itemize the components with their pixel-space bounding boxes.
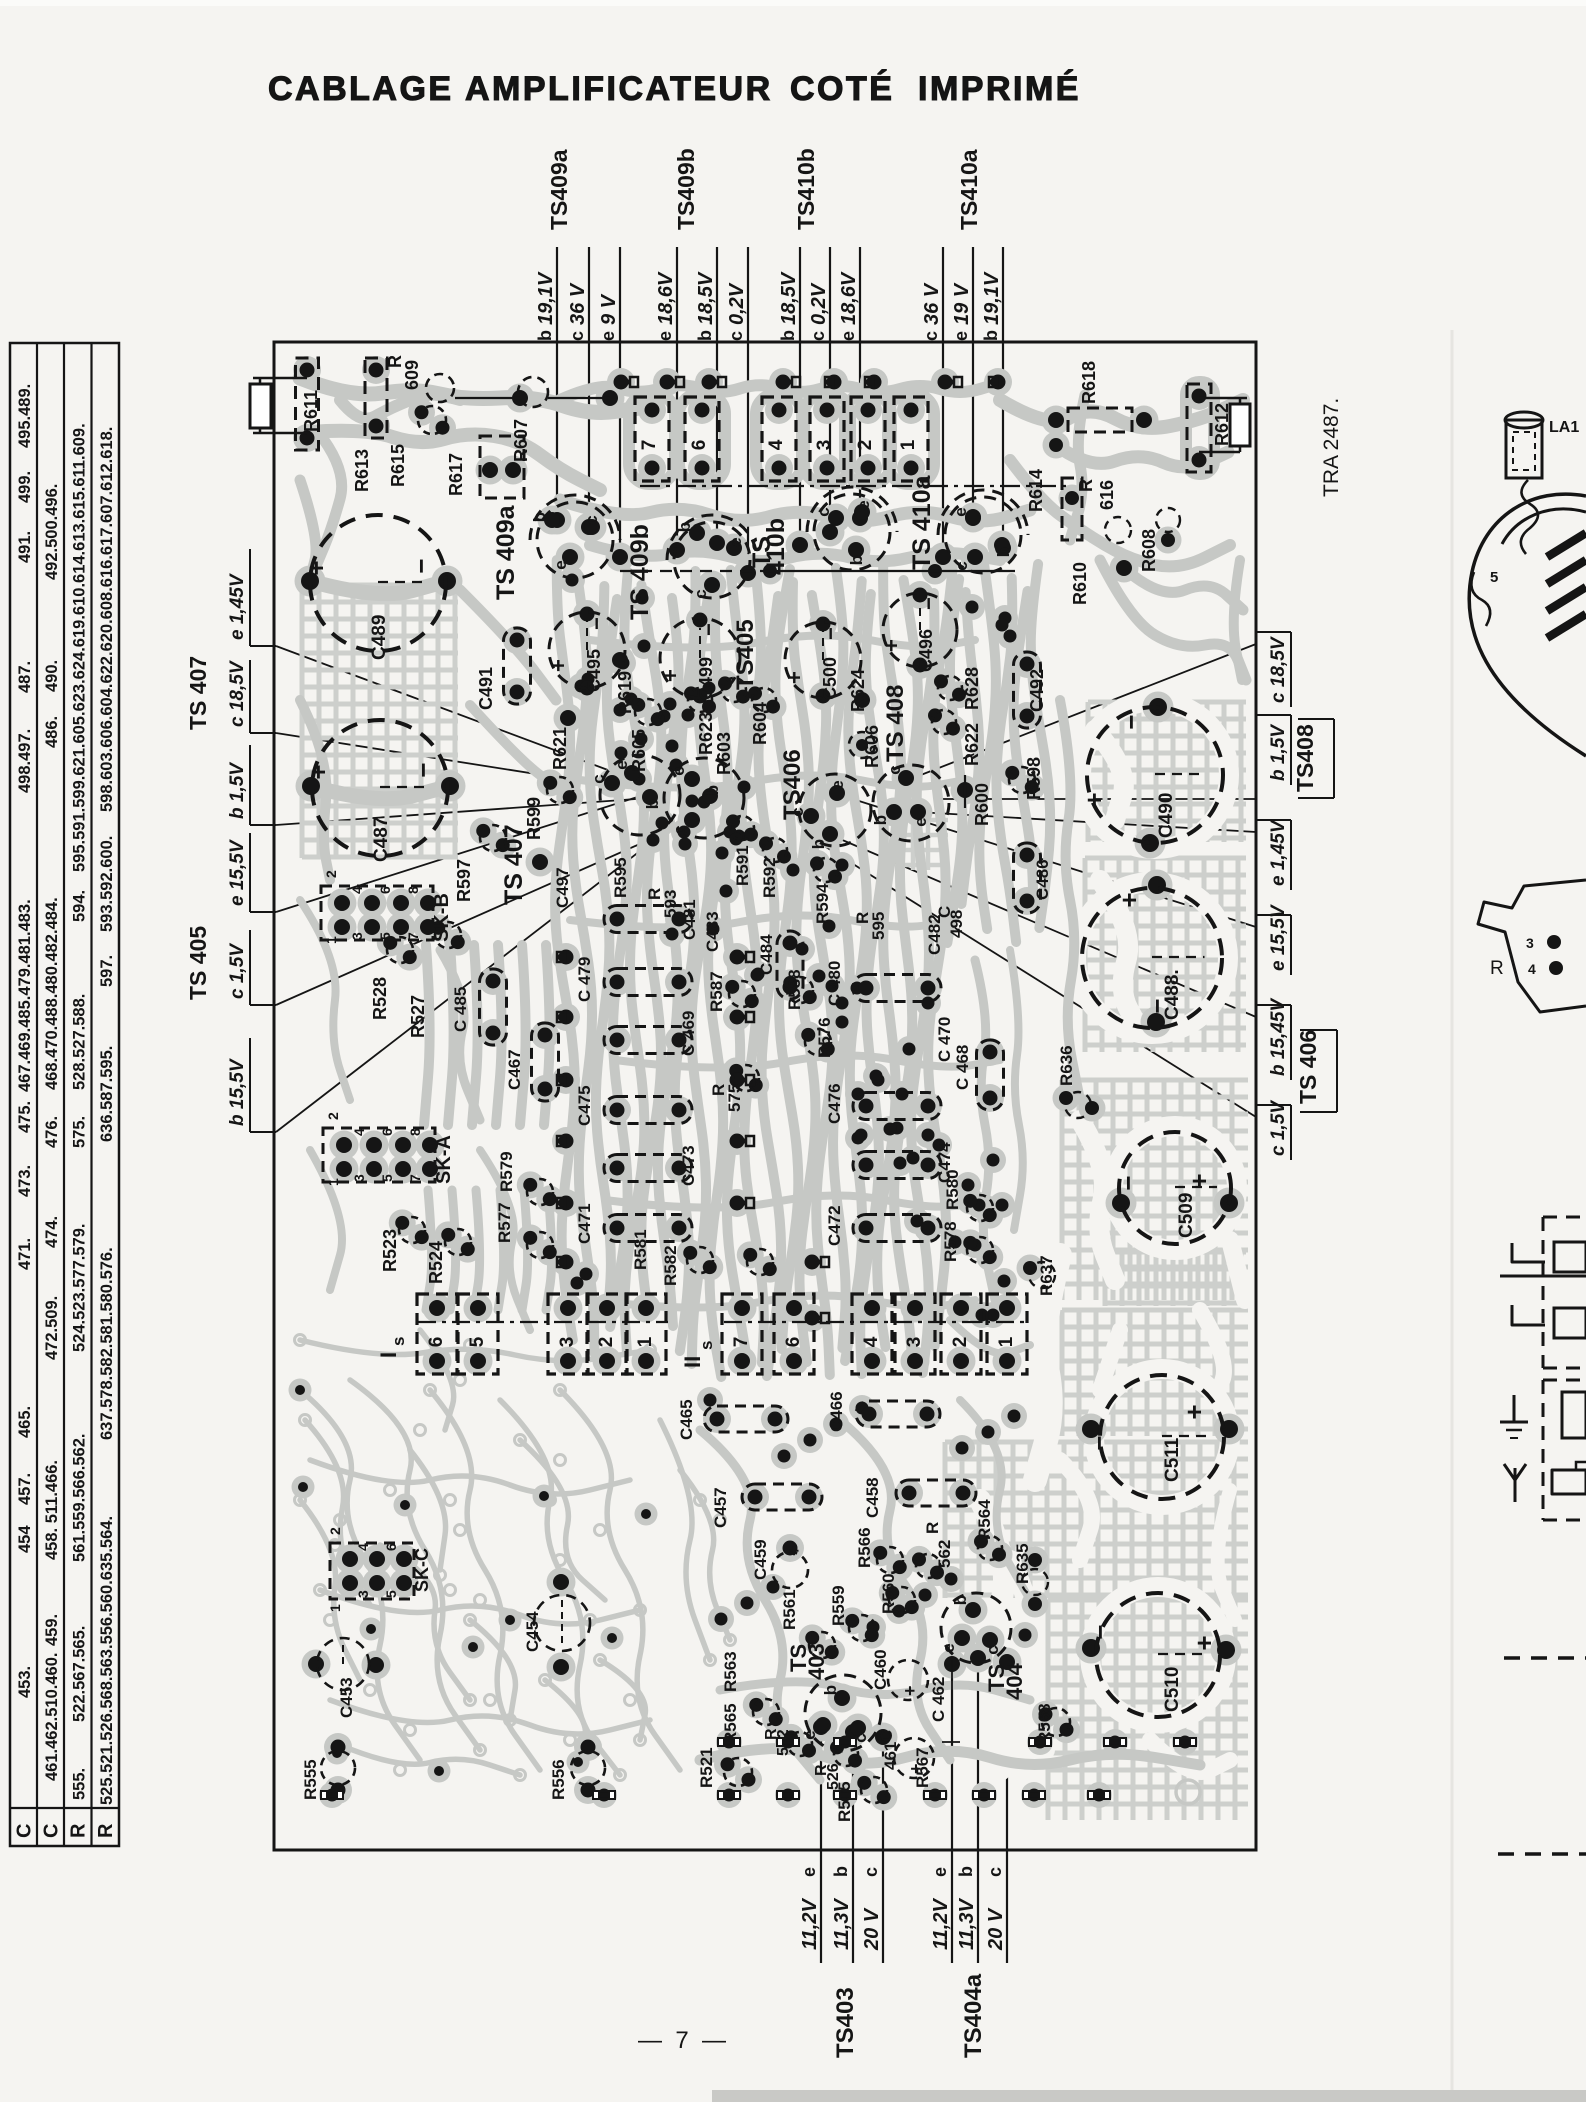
svg-text:18,6V: 18,6V [655,271,677,325]
resistor R521 [724,1758,752,1786]
resistor R623 [688,688,712,712]
leader line c 18,5V right [908,644,1256,780]
svg-text:C509: C509 [1176,1193,1197,1238]
resistor R603 [722,678,746,702]
spade pads top row [630,377,638,387]
resistor R556 [571,1751,605,1785]
transistor TS408 circle [873,765,949,841]
connector Is 6 [417,1294,457,1374]
resistor R576 [805,1029,831,1055]
svg-text:476.: 476. [43,1116,61,1148]
svg-text:472.509.: 472.509. [43,1296,61,1360]
svg-text:C486: C486 [1033,859,1052,900]
copper trace bottom center [700,1430,820,1780]
bottom edge tab pads [321,1793,343,1798]
capacitor C487 [312,720,448,856]
svg-text:593: 593 [661,890,680,918]
connector SK-A [323,1128,435,1182]
svg-text:3: 3 [1526,935,1534,951]
svg-text:SK-A: SK-A [433,1135,455,1184]
svg-text:3: 3 [349,932,365,940]
svg-text:R622: R622 [962,723,982,766]
svg-text:−: − [1113,1175,1143,1190]
resistor R555 [321,1751,355,1785]
leader line c 1,5V [276,820,694,1005]
svg-text:C459: C459 [751,1539,770,1580]
svg-text:R608: R608 [1139,529,1159,572]
svg-text:R524: R524 [426,1241,446,1284]
svg-text:R635: R635 [1013,1543,1032,1584]
copper grid region C490 [1088,702,1246,842]
svg-text:5: 5 [1490,569,1498,586]
wire TS409a c lead [588,247,590,527]
capacitor C481 pill [604,906,692,933]
svg-text:C 469: C 469 [679,1011,698,1056]
resistor R580 [967,1195,993,1221]
svg-text:461: 461 [881,1742,900,1770]
svg-text:594.: 594. [71,890,89,922]
capacitor C480 pill [853,975,941,1002]
svg-text:e 15,5V: e 15,5V [227,839,248,906]
svg-text:498: 498 [947,910,966,938]
svg-text:e: e [939,1643,958,1652]
transistor TS409b [674,522,750,598]
svg-text:TS404a: TS404a [960,1973,987,2058]
svg-text:R566: R566 [855,1527,874,1568]
svg-text:+: + [879,639,904,652]
svg-text:467.469.485.479.481.483.: 467.469.485.479.481.483. [16,899,34,1092]
capacitor C490 [1087,707,1223,843]
svg-text:c: c [582,515,601,524]
resistor R592 [763,838,787,862]
capacitor C499 [660,618,740,698]
svg-text:R: R [1076,479,1096,492]
svg-text:b 1,5V: b 1,5V [227,762,248,819]
svg-text:b: b [703,785,722,795]
svg-text:410b: 410b [762,518,790,575]
wire TS410b e lead [859,247,861,518]
svg-text:6: 6 [783,1337,804,1348]
copper grid region bottom right [945,1442,1248,1598]
resistor R605 [635,699,661,725]
resistor symbol right edge [1230,404,1250,446]
transistor TS405 circle [664,758,744,838]
svg-text:492.500.496.: 492.500.496. [43,484,61,580]
svg-text:R604: R604 [750,702,770,745]
wire TS409a e lead [619,247,621,557]
svg-text:+: + [658,669,683,682]
resistor R560 [889,1587,915,1613]
svg-text:595.591.599.621.605.623.624.61: 595.591.599.621.605.623.624.619.610.614.… [71,423,89,872]
svg-text:+: + [1114,892,1144,907]
connector SK-C [330,1543,414,1599]
leader line e 15,5V [276,779,694,912]
svg-text:+: + [301,560,331,575]
svg-text:R564: R564 [975,1499,994,1540]
bottom scan strip [712,2090,1586,2102]
copper pad blobs [543,506,572,535]
svg-text:7: 7 [405,932,421,940]
dashed module top right [1543,1216,1586,1219]
svg-text:c: c [589,774,608,783]
lamp wire [1521,480,1538,554]
svg-text:C454: C454 [523,1611,542,1652]
capacitor C467 [532,1023,559,1101]
svg-text:R599: R599 [524,797,544,840]
svg-text:8: 8 [407,1128,423,1136]
connector IIs 7 [722,1294,762,1374]
svg-text:528.527.588.: 528.527.588. [71,994,89,1090]
wire TS409a b lead [556,247,558,520]
svg-text:R: R [923,1522,942,1534]
resistor symbol left edge [250,384,271,428]
svg-text:C472: C472 [825,1205,844,1246]
copper grid region left [302,585,458,858]
svg-text:C510: C510 [1162,1667,1183,1712]
svg-text:e: e [951,331,971,341]
svg-text:487.: 487. [16,661,34,693]
resistor R528 [387,937,413,963]
svg-text:R617: R617 [446,453,466,496]
svg-text:9 V: 9 V [598,293,620,325]
svg-text:b: b [530,512,549,522]
svg-text:C465: C465 [677,1399,696,1440]
resistor R594 [814,858,838,882]
svg-text:b 1,5V: b 1,5V [1268,724,1289,781]
svg-text:c: c [567,331,587,341]
resistor R568 [1042,1708,1070,1736]
capacitor C488 [1082,888,1222,1028]
wire TS409b c lead [747,247,749,573]
svg-text:4: 4 [1528,961,1536,977]
svg-text:461.462.510.460.: 461.462.510.460. [43,1653,61,1781]
svg-text:e: e [951,507,970,516]
resistor R581 [687,1247,713,1273]
svg-text:465.: 465. [16,1406,34,1438]
svg-text:C 479: C 479 [575,957,594,1002]
svg-text:C 468: C 468 [953,1045,972,1090]
capacitor C459 [772,1552,808,1588]
resistor R523 [399,1217,425,1243]
svg-text:s: s [697,1341,716,1350]
wire TS403 b lead [852,1732,854,1963]
svg-text:C495: C495 [584,649,604,692]
svg-text:525.521.526.568.563.556.560.63: 525.521.526.568.563.556.560.635.564. [98,1516,116,1805]
connector box 1 [894,397,928,481]
transistor TS409a [537,502,613,578]
spade pads middle columns [557,952,565,962]
svg-text:R579: R579 [497,1151,516,1192]
svg-text:TS 410a: TS 410a [908,474,936,570]
resistor R606 [849,732,875,758]
svg-text:C488.: C488. [1162,969,1183,1020]
svg-text:— 7 —: — 7 — [638,2027,726,2054]
connector box 2 [851,397,885,481]
svg-text:C471: C471 [575,1203,594,1244]
svg-text:19,1V: 19,1V [535,271,557,325]
connector IIs 3 [895,1294,935,1374]
svg-text:20 V: 20 V [861,1907,883,1951]
svg-text:TS 405: TS 405 [185,926,211,1000]
svg-text:575.: 575. [71,1116,89,1148]
transistor TS410a [945,497,1021,573]
svg-text:3: 3 [557,1337,578,1348]
svg-text:TS409a: TS409a [546,149,572,230]
svg-text:c: c [691,589,710,598]
svg-text:−: − [818,627,843,640]
wire TS410b b lead [799,247,801,545]
dashed separator 1 [1504,1656,1586,1660]
svg-text:524.523.577.579.: 524.523.577.579. [71,1224,89,1352]
svg-text:1: 1 [635,1336,656,1347]
transistor TS404 [941,1593,1011,1663]
svg-text:R610: R610 [1070,562,1090,605]
component index table frame [10,343,119,1846]
svg-text:C476: C476 [825,1083,844,1124]
svg-text:+: + [900,1685,920,1696]
transistor TS403 [805,1675,881,1751]
svg-text:b: b [951,1595,970,1605]
svg-text:C460: C460 [871,1649,890,1690]
svg-text:c: c [808,331,828,341]
resistor R564 [978,1536,1002,1560]
svg-text:1: 1 [327,1604,343,1612]
svg-text:C500: C500 [820,657,840,700]
board outline [274,342,1256,1850]
leader line e 15,5V right [840,795,1256,927]
wire TS403 e lead [820,1727,822,1963]
svg-text:404: 404 [1002,1663,1027,1700]
resistor R566 [877,1547,903,1573]
svg-text:5: 5 [377,932,393,940]
svg-text:TS405: TS405 [732,619,759,690]
svg-text:609: 609 [402,360,422,390]
capacitor C489 [310,515,446,651]
svg-text:c: c [885,765,904,774]
resistor R635 [1022,1569,1048,1595]
svg-text:R528: R528 [370,977,390,1020]
connector Is 3 [548,1294,588,1374]
svg-text:11,2V: 11,2V [799,1898,821,1950]
svg-text:e 1,45V: e 1,45V [1268,819,1289,886]
svg-text:R611: R611 [301,390,321,432]
copper grid region C488 [1085,858,1246,1052]
svg-text:4: 4 [766,439,787,450]
svg-text:3: 3 [355,1590,371,1598]
svg-text:R606: R606 [862,725,882,768]
svg-text:LA1: LA1 [1549,419,1579,436]
copper trace SK bundle verticals [424,945,430,1125]
capacitor C475 pill [604,1097,692,1124]
svg-text:8: 8 [405,886,421,894]
connector box 4 [762,397,796,481]
svg-text:5: 5 [379,1174,395,1182]
svg-text:475.: 475. [16,1101,34,1133]
svg-text:R561: R561 [780,1589,799,1630]
svg-text:C475: C475 [575,1085,594,1126]
svg-text:6: 6 [689,440,710,451]
svg-text:e 1,45V: e 1,45V [227,573,248,640]
svg-text:6: 6 [377,886,393,894]
capacitor C496 [883,593,957,667]
connector SK-B [321,886,433,940]
speaker wire 5 [1471,572,1490,626]
white clearings in grids [1095,730,1124,820]
svg-text:−: − [1116,714,1146,729]
capacitor C500 [785,622,861,698]
svg-text:491.: 491. [16,531,34,563]
svg-text:c: c [726,331,746,341]
svg-text:C487: C487 [371,817,392,862]
wire R609 [455,397,520,399]
transistor TS407 circle [600,755,680,835]
svg-text:R603: R603 [714,732,734,775]
copper grid patch near TS408 [898,820,948,870]
svg-text:R613: R613 [352,449,372,492]
resistor R613 [365,358,387,438]
svg-text:b: b [643,799,662,809]
wire dashed mid [620,570,770,572]
resistor R607 [518,377,548,407]
svg-text:−: − [1085,1624,1115,1639]
svg-text:R592: R592 [760,857,779,898]
leader line e 1,45V [276,646,640,782]
connector box 3 [810,397,844,481]
svg-text:TS 408: TS 408 [882,685,909,762]
svg-text:II: II [680,1356,705,1368]
svg-text:1: 1 [898,439,919,450]
svg-text:2: 2 [855,440,876,451]
svg-text:R578: R578 [941,1221,960,1262]
svg-text:C483: C483 [703,911,722,952]
svg-text:C 470: C 470 [935,1017,954,1062]
copper trace bottom left web [300,1390,420,1760]
pad ring bottom right [1176,1780,1200,1804]
copper grid region bottom right corner [1105,1252,1246,1306]
resistor R578 [967,1237,993,1263]
svg-text:c: c [814,507,833,516]
leader line e 1,45V right [918,812,1256,832]
svg-text:495.489.: 495.489. [16,384,34,448]
svg-text:454: 454 [16,1525,34,1553]
svg-text:526: 526 [825,1763,842,1790]
svg-text:R594: R594 [813,883,832,924]
svg-text:e: e [828,780,847,789]
svg-text:6: 6 [426,1337,447,1348]
svg-text:b: b [809,839,828,849]
capacitor C479 pill [604,969,692,996]
leader line b 15,5V [276,797,710,1132]
heatsink R icon [1478,880,1586,1012]
svg-text:TS403: TS403 [832,1987,859,2058]
copper trace top right [1000,400,1243,428]
svg-text:C467: C467 [505,1049,524,1090]
svg-text:c 18,5V: c 18,5V [1268,636,1289,703]
svg-text:c 1,5V: c 1,5V [1268,1100,1289,1156]
svg-text:486.: 486. [43,716,61,748]
resistor R561 [809,1632,835,1658]
speaker outline [1469,494,1586,756]
svg-text:4: 4 [861,1336,882,1347]
svg-text:471.: 471. [16,1238,34,1270]
copper trace left sparse [300,480,316,580]
svg-text:TRA 2487.: TRA 2487. [1320,398,1343,497]
resistor R611 [296,358,319,450]
svg-text:3: 3 [351,1174,367,1182]
svg-text:R636: R636 [1057,1045,1076,1086]
svg-text:459.: 459. [43,1614,61,1646]
svg-text:7: 7 [731,1337,752,1348]
svg-text:C: C [41,1824,63,1838]
copper trace central cross links [590,635,975,647]
copper grid region mid right [1062,1080,1248,1300]
svg-text:R556: R556 [549,1759,568,1800]
capacitor C453 [317,1638,369,1690]
svg-text:b 15,45V: b 15,45V [1268,998,1289,1076]
svg-text:R623: R623 [696,712,716,755]
svg-text:b: b [847,555,866,565]
svg-text:499.: 499. [16,471,34,503]
resistor R522 [788,1732,812,1756]
svg-text:b: b [821,1685,840,1695]
capacitor C484 [777,931,803,999]
resistor R636 [1065,1092,1091,1118]
svg-text:R619: R619 [615,671,635,714]
svg-text:C484: C484 [757,934,776,975]
transistor TS406 circle [799,774,871,846]
resistor R527 [435,922,461,948]
wire R600 to edge [935,798,1256,800]
connector box 7 [635,397,669,481]
resistor R524 [445,1229,471,1255]
resistor R588 [787,977,813,1003]
svg-text:2: 2 [327,1527,343,1535]
svg-text:b: b [695,330,715,341]
svg-text:R527: R527 [408,995,428,1038]
svg-text:403: 403 [804,1643,829,1680]
svg-text:C491: C491 [476,667,496,710]
svg-text:C466: C466 [827,1391,846,1432]
svg-text:R595: R595 [611,857,630,898]
svg-text:TS408: TS408 [1292,724,1318,792]
svg-text:C492: C492 [1027,669,1047,712]
wire TS410a b lead [1002,247,1004,548]
svg-text:R597: R597 [454,859,474,902]
svg-text:2: 2 [950,1337,971,1348]
svg-text:e: e [726,537,745,546]
resistor R582 [747,1249,773,1275]
dash-dot line IIs [724,1321,1028,1323]
svg-text:1: 1 [325,1178,341,1186]
resistor R618 [1068,408,1132,432]
resistor R562 [916,1554,940,1578]
svg-text:e: e [598,331,618,341]
svg-text:19 V: 19 V [951,282,973,325]
svg-text:7: 7 [639,440,660,451]
svg-text:575: 575 [725,1084,744,1112]
leader line c 1,5V right [818,842,1256,1117]
wire TS403 c lead [882,1737,884,1963]
svg-text:TS 409a: TS 409a [492,504,520,600]
svg-text:2: 2 [323,870,339,878]
svg-text:11,3V: 11,3V [831,1898,853,1950]
resistor R587 [729,981,755,1007]
svg-text:e: e [838,331,858,341]
resistor R591 [730,816,754,840]
svg-text:b: b [994,547,1013,557]
resistor R600 [964,775,966,808]
svg-text:SK-C: SK-C [412,1548,432,1592]
